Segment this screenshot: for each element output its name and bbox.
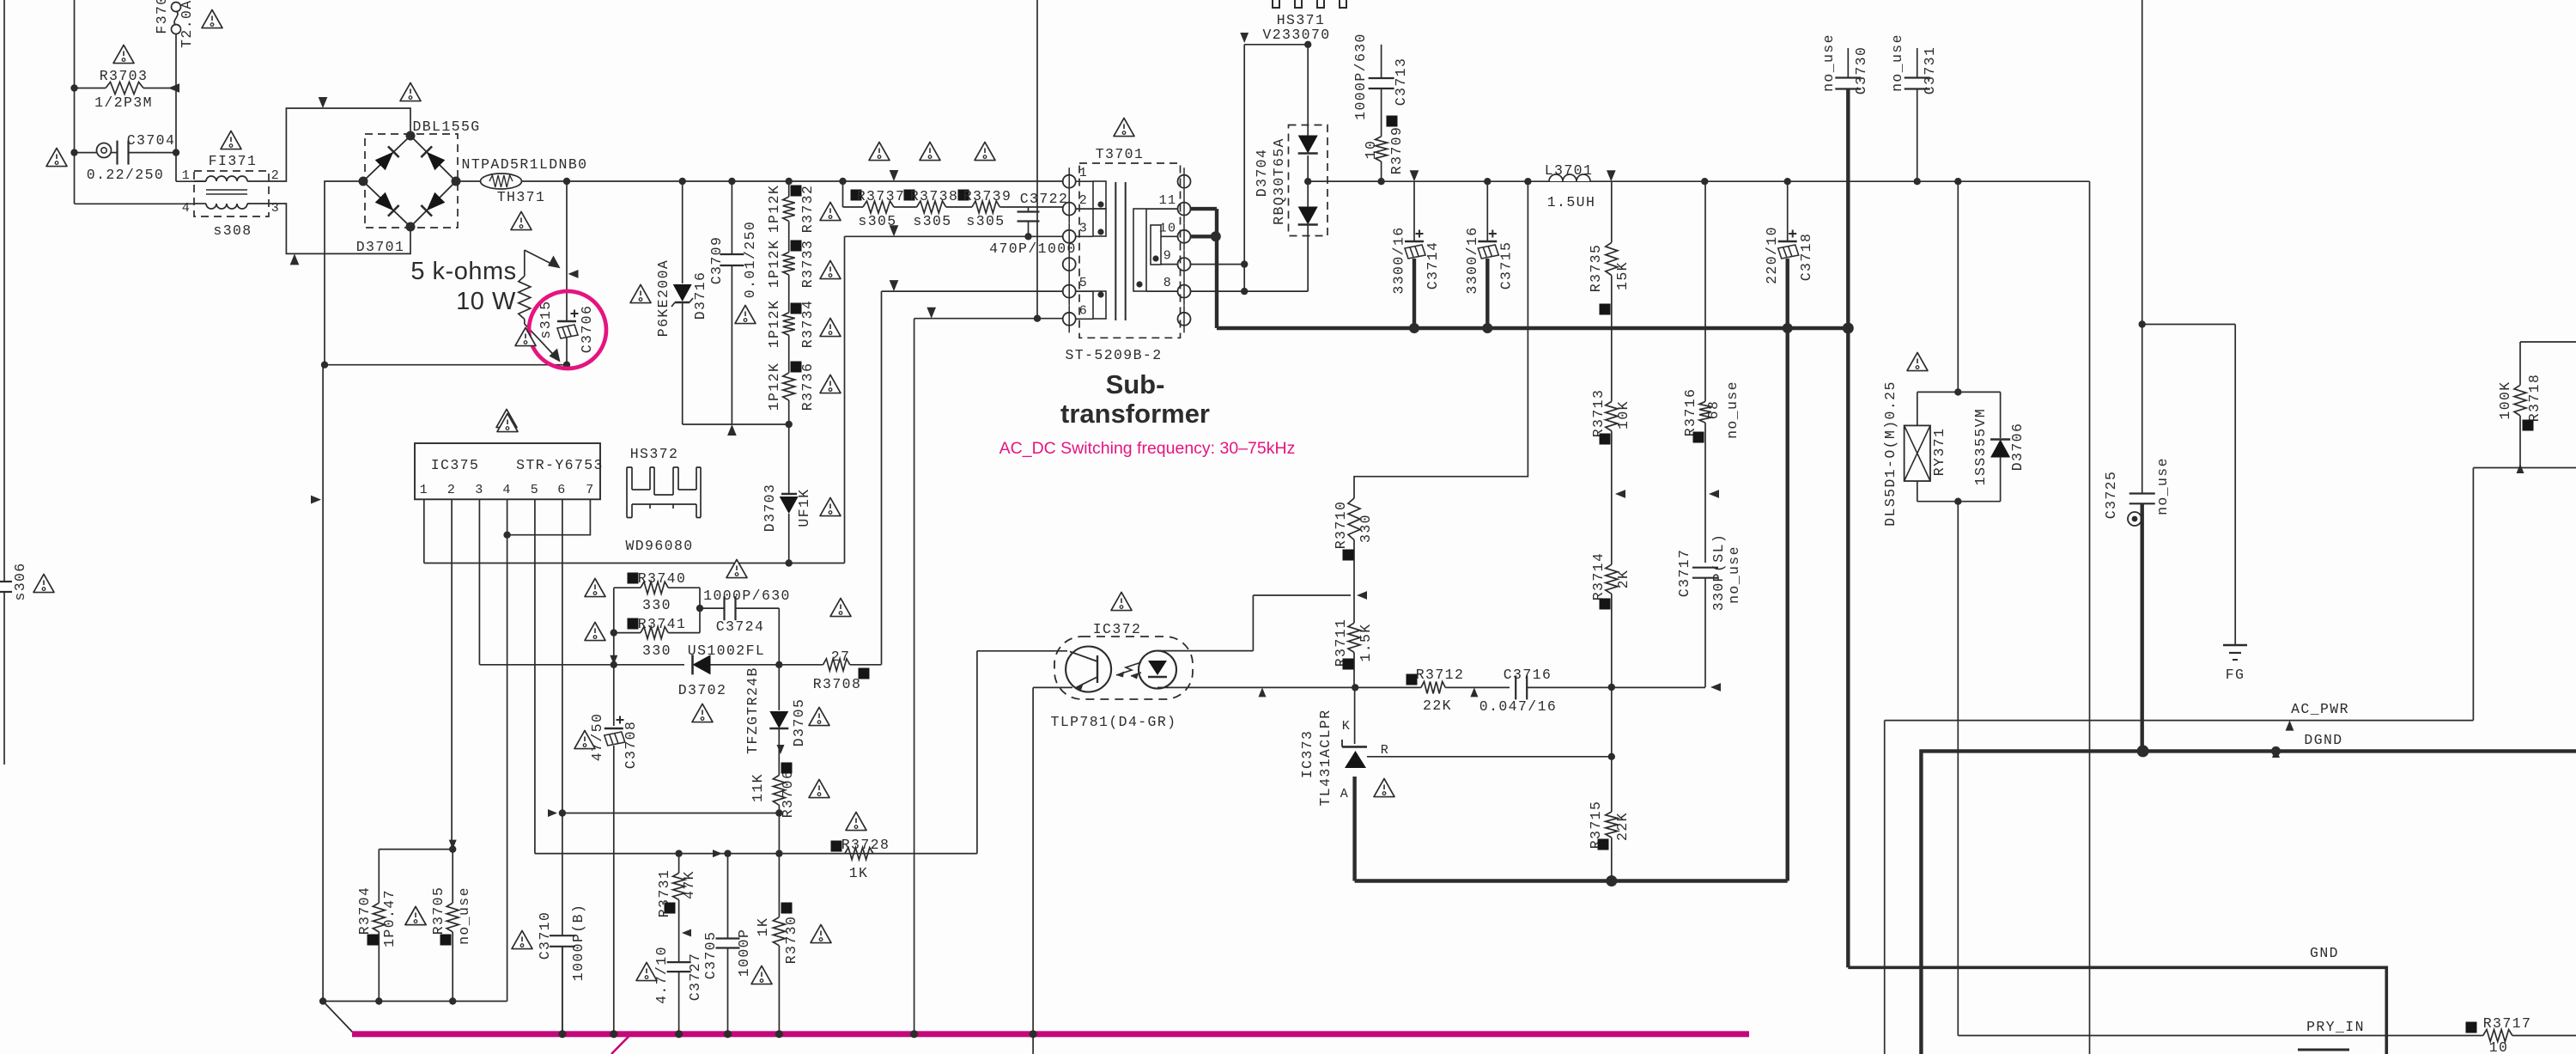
svg-text:1P0.47: 1P0.47 bbox=[381, 889, 398, 947]
svg-text:C3715: C3715 bbox=[1498, 241, 1514, 290]
svg-text:C3710: C3710 bbox=[537, 911, 553, 960]
svg-text:R3732: R3732 bbox=[799, 185, 816, 234]
svg-text:T2.0A2: T2.0A2 bbox=[179, 0, 195, 48]
svg-text:R3740: R3740 bbox=[638, 570, 687, 587]
svg-text:no_use: no_use bbox=[1726, 545, 1742, 604]
svg-text:C3724: C3724 bbox=[716, 618, 765, 635]
svg-text:8: 8 bbox=[1163, 276, 1172, 290]
svg-text:s308: s308 bbox=[213, 222, 252, 239]
svg-text:K: K bbox=[1342, 719, 1351, 734]
svg-text:no_use: no_use bbox=[456, 886, 472, 945]
svg-text:C3706: C3706 bbox=[579, 305, 595, 354]
svg-text:47K: 47K bbox=[681, 870, 697, 899]
svg-text:1: 1 bbox=[420, 483, 428, 497]
svg-text:1SS355VM: 1SS355VM bbox=[1972, 408, 1989, 485]
svg-text:R3728: R3728 bbox=[841, 837, 890, 853]
svg-text:no_use: no_use bbox=[2154, 457, 2171, 515]
svg-text:PRY_IN: PRY_IN bbox=[2306, 1019, 2365, 1035]
svg-text:C3713: C3713 bbox=[1393, 58, 1409, 107]
svg-text:HS372: HS372 bbox=[630, 446, 679, 462]
svg-text:IC375: IC375 bbox=[431, 457, 480, 473]
svg-text:ST-5209B-2: ST-5209B-2 bbox=[1065, 347, 1162, 363]
svg-text:3300/16: 3300/16 bbox=[1464, 226, 1480, 294]
svg-text:AC_PWR: AC_PWR bbox=[2291, 701, 2349, 717]
svg-text:D3703: D3703 bbox=[762, 484, 778, 533]
svg-text:s305: s305 bbox=[966, 213, 1005, 229]
svg-text:no_use: no_use bbox=[1820, 34, 1837, 92]
svg-text:0.047/16: 0.047/16 bbox=[1479, 698, 1557, 715]
svg-text:C3717: C3717 bbox=[1676, 549, 1692, 598]
svg-text:R3733: R3733 bbox=[799, 240, 816, 289]
svg-text:R3712: R3712 bbox=[1416, 667, 1465, 683]
svg-text:R3703: R3703 bbox=[100, 68, 149, 84]
svg-text:15K: 15K bbox=[1614, 261, 1631, 290]
svg-text:0.22/250: 0.22/250 bbox=[87, 167, 164, 183]
svg-text:11: 11 bbox=[1159, 193, 1177, 208]
svg-text:no_use: no_use bbox=[1724, 381, 1741, 439]
svg-text:2: 2 bbox=[1079, 193, 1088, 208]
svg-text:1: 1 bbox=[1079, 166, 1088, 180]
svg-text:47/50: 47/50 bbox=[589, 713, 605, 762]
svg-text:P6KE200A: P6KE200A bbox=[655, 259, 671, 337]
svg-text:1P12K: 1P12K bbox=[766, 300, 782, 349]
svg-text:C3705: C3705 bbox=[702, 931, 719, 980]
svg-text:7: 7 bbox=[586, 483, 594, 497]
svg-text:GND: GND bbox=[2310, 945, 2339, 961]
svg-text:R3735: R3735 bbox=[1588, 244, 1604, 293]
svg-text:10: 10 bbox=[1363, 140, 1379, 160]
svg-text:22K: 22K bbox=[1614, 812, 1631, 841]
svg-text:1P12K: 1P12K bbox=[766, 240, 782, 289]
svg-text:1000P: 1000P bbox=[736, 929, 752, 978]
svg-text:R3709: R3709 bbox=[1388, 126, 1405, 175]
svg-text:DGND: DGND bbox=[2304, 732, 2342, 748]
svg-text:R3705: R3705 bbox=[430, 886, 447, 935]
svg-text:R3714: R3714 bbox=[1590, 552, 1607, 601]
svg-text:330: 330 bbox=[1358, 514, 1374, 543]
svg-text:RY371: RY371 bbox=[1931, 428, 1947, 477]
svg-text:4: 4 bbox=[502, 483, 511, 497]
svg-text:FI371: FI371 bbox=[209, 153, 258, 169]
svg-text:2K: 2K bbox=[1615, 570, 1631, 589]
svg-text:C3704: C3704 bbox=[127, 132, 176, 149]
svg-text:1P12K: 1P12K bbox=[766, 185, 782, 234]
svg-text:R3716: R3716 bbox=[1682, 388, 1698, 437]
svg-text:FG: FG bbox=[2226, 667, 2245, 683]
svg-text:1K: 1K bbox=[755, 917, 771, 937]
svg-text:IC372: IC372 bbox=[1093, 621, 1142, 637]
svg-text:R3708: R3708 bbox=[813, 676, 862, 692]
svg-text:5: 5 bbox=[531, 483, 539, 497]
svg-text:27: 27 bbox=[831, 649, 851, 665]
svg-text:10: 10 bbox=[2489, 1039, 2509, 1054]
svg-text:STR-Y6753: STR-Y6753 bbox=[516, 457, 604, 473]
svg-text:DLS5D1-O(M)0.25: DLS5D1-O(M)0.25 bbox=[1882, 381, 1899, 527]
svg-text:2: 2 bbox=[447, 483, 456, 497]
svg-text:R3730: R3730 bbox=[783, 916, 799, 965]
svg-text:R3706: R3706 bbox=[780, 770, 796, 819]
svg-text:330: 330 bbox=[642, 643, 671, 659]
svg-text:220/10: 220/10 bbox=[1764, 226, 1780, 284]
svg-text:1000P/630: 1000P/630 bbox=[1352, 33, 1369, 120]
svg-text:470P/1000: 470P/1000 bbox=[989, 241, 1077, 257]
svg-text:C3731: C3731 bbox=[1922, 46, 1938, 95]
svg-text:R3739: R3739 bbox=[963, 188, 1012, 204]
svg-text:6: 6 bbox=[1079, 303, 1088, 318]
svg-text:9: 9 bbox=[1163, 249, 1172, 264]
svg-text:TLP781(D4-GR): TLP781(D4-GR) bbox=[1051, 714, 1177, 730]
svg-text:AC_DC Switching frequency: 30–: AC_DC Switching frequency: 30–75kHz bbox=[999, 439, 1296, 458]
svg-text:4.7/10: 4.7/10 bbox=[653, 946, 670, 1004]
svg-text:C3714: C3714 bbox=[1425, 241, 1441, 290]
svg-text:22K: 22K bbox=[1423, 698, 1452, 714]
svg-text:RBQ30T65A: RBQ30T65A bbox=[1271, 137, 1287, 225]
svg-text:R3734: R3734 bbox=[799, 300, 816, 349]
svg-text:4: 4 bbox=[182, 201, 191, 216]
svg-text:1P12K: 1P12K bbox=[766, 363, 782, 411]
svg-text:no_use: no_use bbox=[1889, 34, 1905, 92]
svg-text:1000P/630: 1000P/630 bbox=[703, 588, 791, 604]
svg-text:10K: 10K bbox=[1615, 400, 1631, 430]
svg-text:1.5K: 1.5K bbox=[1358, 623, 1374, 661]
svg-text:D3701: D3701 bbox=[356, 239, 405, 255]
svg-text:3: 3 bbox=[475, 483, 483, 497]
svg-text:3300/16: 3300/16 bbox=[1391, 226, 1407, 294]
svg-text:V233070: V233070 bbox=[1262, 27, 1330, 43]
svg-text:R3718: R3718 bbox=[2526, 374, 2543, 423]
svg-text:transformer: transformer bbox=[1060, 399, 1210, 429]
svg-text:1K: 1K bbox=[849, 865, 869, 881]
svg-text:WD96080: WD96080 bbox=[625, 538, 693, 554]
svg-text:R3736: R3736 bbox=[799, 363, 816, 411]
svg-text:10 W: 10 W bbox=[456, 288, 516, 315]
svg-text:US1002FL: US1002FL bbox=[688, 643, 765, 659]
svg-text:330: 330 bbox=[642, 597, 671, 613]
svg-text:TL431ACLPR: TL431ACLPR bbox=[1317, 709, 1334, 806]
svg-text:11K: 11K bbox=[750, 773, 766, 802]
svg-text:D3716: D3716 bbox=[692, 271, 708, 320]
svg-text:T3701: T3701 bbox=[1096, 146, 1145, 162]
svg-text:5 k-ohms: 5 k-ohms bbox=[410, 258, 516, 285]
svg-text:R3738: R3738 bbox=[910, 188, 959, 204]
svg-text:D3706: D3706 bbox=[2009, 423, 2026, 472]
svg-text:s306: s306 bbox=[12, 562, 28, 600]
svg-text:D3704: D3704 bbox=[1254, 149, 1270, 198]
svg-text:TH371: TH371 bbox=[497, 189, 546, 205]
svg-text:R3704: R3704 bbox=[356, 886, 373, 935]
svg-text:6: 6 bbox=[557, 483, 566, 497]
svg-text:Sub-: Sub- bbox=[1106, 369, 1165, 399]
svg-text:C3722: C3722 bbox=[1020, 191, 1069, 207]
svg-text:C3725: C3725 bbox=[2103, 471, 2119, 520]
svg-text:R3713: R3713 bbox=[1590, 389, 1607, 438]
svg-text:D3702: D3702 bbox=[678, 682, 727, 698]
svg-text:330P(SL): 330P(SL) bbox=[1710, 533, 1727, 611]
svg-text:C3718: C3718 bbox=[1798, 233, 1814, 282]
svg-text:1.5UH: 1.5UH bbox=[1547, 194, 1596, 210]
svg-text:R3710: R3710 bbox=[1333, 501, 1349, 550]
svg-text:C3708: C3708 bbox=[623, 721, 639, 770]
svg-text:TFZGTR24B: TFZGTR24B bbox=[744, 667, 761, 754]
svg-text:1000P(B): 1000P(B) bbox=[570, 904, 586, 981]
svg-text:0.01/250: 0.01/250 bbox=[742, 221, 758, 298]
svg-text:A: A bbox=[1340, 787, 1349, 801]
svg-text:R3717: R3717 bbox=[2483, 1015, 2532, 1032]
svg-text:IC373: IC373 bbox=[1299, 730, 1315, 779]
svg-text:C3709: C3709 bbox=[708, 236, 725, 285]
svg-text:s305: s305 bbox=[913, 213, 951, 229]
svg-text:1/2P3M: 1/2P3M bbox=[94, 94, 153, 111]
svg-text:R3737: R3737 bbox=[857, 188, 906, 204]
svg-text:DBL155G: DBL155G bbox=[412, 119, 480, 135]
svg-text:R: R bbox=[1381, 743, 1389, 758]
svg-text:L3701: L3701 bbox=[1545, 162, 1594, 179]
svg-text:C3716: C3716 bbox=[1504, 667, 1552, 683]
svg-text:100K: 100K bbox=[2497, 381, 2513, 419]
svg-text:D3705: D3705 bbox=[791, 698, 807, 747]
svg-text:3: 3 bbox=[1079, 221, 1088, 235]
svg-text:R3741: R3741 bbox=[638, 616, 687, 632]
svg-text:68: 68 bbox=[1705, 400, 1722, 420]
svg-text:C3730: C3730 bbox=[1853, 46, 1869, 95]
svg-text:UF1K: UF1K bbox=[796, 488, 812, 527]
svg-text:s315: s315 bbox=[538, 300, 554, 338]
svg-text:1: 1 bbox=[182, 168, 191, 183]
svg-text:5: 5 bbox=[1079, 276, 1088, 290]
svg-text:F370: F370 bbox=[154, 0, 170, 34]
svg-text:NTPAD5R1LDNB0: NTPAD5R1LDNB0 bbox=[462, 156, 588, 173]
svg-text:C3727: C3727 bbox=[687, 953, 703, 1002]
